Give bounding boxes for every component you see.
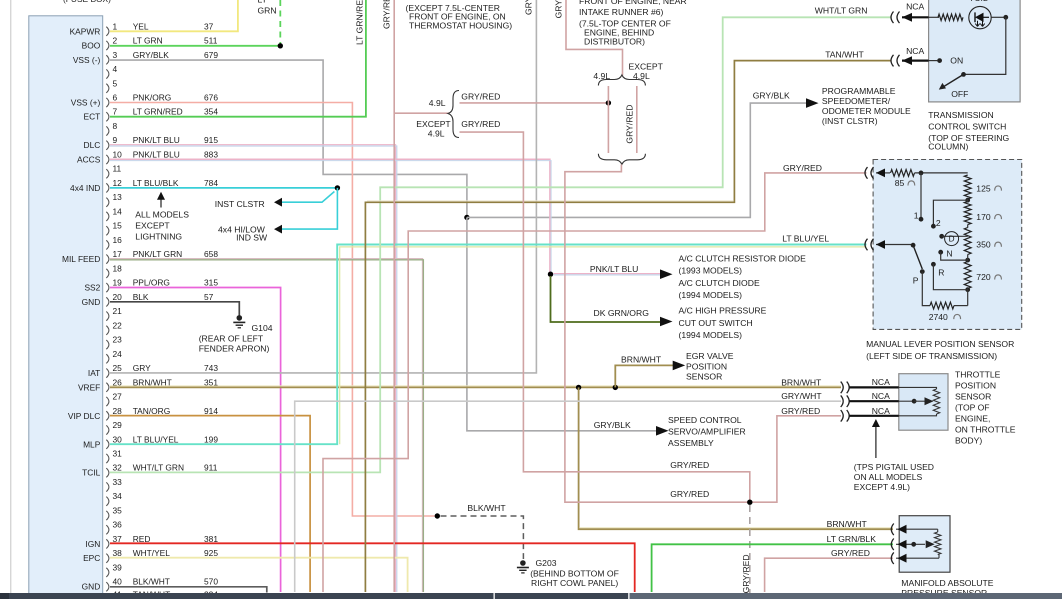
svg-text:28: 28 [113, 406, 123, 416]
svg-text:GRY/RED: GRY/RED [670, 460, 709, 470]
arrow to EGR valve position sensor [673, 361, 686, 371]
svg-text:39: 39 [113, 562, 123, 572]
svg-text:ECT: ECT [84, 112, 101, 122]
connector (( LT BLU/YEL MLP [865, 239, 874, 251]
svg-text:GRY/BLK: GRY/BLK [753, 91, 790, 101]
svg-text:2: 2 [936, 218, 941, 228]
svg-text:5: 5 [113, 78, 118, 88]
overbrace distributor split [598, 75, 645, 86]
wire dashed GRY/RED continuation off page [749, 505, 751, 593]
svg-text:13: 13 [113, 192, 123, 202]
TCS internal wire to switch [964, 17, 1006, 74]
svg-text:KAPWR: KAPWR [70, 26, 101, 36]
svg-text:WHT/YEL: WHT/YEL [133, 548, 171, 558]
wire TAN/WHT NCA from transmission control switch [367, 200, 733, 202]
wire BLK 57 pin20 GND [110, 302, 239, 316]
wire BRN/WHT branch down to MAP sensor [580, 527, 893, 529]
svg-text:TCIL: TCIL [82, 468, 100, 478]
resistor chain 125 [964, 175, 971, 199]
node 125/170 [965, 198, 970, 203]
svg-text:31: 31 [113, 449, 123, 459]
underbrace rejoin [598, 154, 645, 165]
node after 85 ohm [919, 171, 924, 176]
svg-text:21: 21 [113, 306, 123, 316]
wire branch to INST CLSTR [282, 192, 335, 203]
svg-text:4.9L: 4.9L [428, 128, 445, 138]
throttle position sensor box [899, 374, 948, 431]
resistor chain 170 [964, 202, 971, 225]
svg-text:TCIL: TCIL [969, 0, 988, 3]
connector ( BRN/WHT MAP [891, 524, 894, 536]
svg-text:NCA: NCA [872, 377, 890, 387]
svg-text:R: R [938, 267, 944, 277]
node shield junction [435, 513, 440, 518]
wire GRY/RED EXCEPT 4.9L leg [636, 86, 638, 153]
svg-text:GRY/RED: GRY/RED [741, 554, 751, 593]
svg-text:11: 11 [113, 164, 122, 174]
svg-text:40: 40 [113, 577, 123, 587]
svg-text:INST CLSTR: INST CLSTR [215, 199, 265, 209]
svg-text:G104: G104 [252, 323, 273, 333]
svg-text:8: 8 [113, 121, 118, 131]
svg-text:FENDER APRON): FENDER APRON) [199, 343, 270, 353]
svg-text:TRANSMISSION: TRANSMISSION [928, 110, 993, 120]
node chain bottom [965, 287, 970, 292]
wire TAN/ORG 914 pin28 VIP DLC [110, 416, 310, 592]
svg-text:ON THROTTLE: ON THROTTLE [955, 425, 1016, 435]
page border line [10, 0, 12, 593]
svg-text:EGR VALVE: EGR VALVE [686, 351, 734, 361]
connector )) BRN/WHT NCA [841, 382, 850, 394]
wire GRY/BLK to speed control servo [467, 217, 656, 430]
brace split 4.9L / EXCEPT 4.9L [448, 91, 459, 138]
svg-text:1: 1 [113, 21, 118, 31]
svg-text:350: 350 [976, 240, 991, 250]
transmission control switch box [929, 0, 1021, 102]
contact 2 link [933, 200, 967, 226]
wire PNK/LT BLU 883 pin10 ACCS two-tone [110, 159, 550, 273]
svg-text:NCA: NCA [872, 406, 890, 416]
svg-text:PNK/LT BLU: PNK/LT BLU [133, 150, 180, 160]
svg-text:DK GRN/ORG: DK GRN/ORG [594, 308, 650, 318]
svg-text:925: 925 [204, 548, 218, 558]
svg-text:SPEEDOMETER/: SPEEDOMETER/ [822, 96, 891, 106]
svg-text:GRY/BLK: GRY/BLK [594, 420, 631, 430]
svg-text:GRY/WHT: GRY/WHT [781, 391, 822, 401]
connector ( GRY/RED MAP [891, 552, 894, 564]
svg-text:GRY/RED: GRY/RED [670, 489, 709, 499]
svg-text:38: 38 [113, 548, 123, 558]
svg-text:27: 27 [113, 392, 123, 402]
node on LT GRN [278, 43, 283, 48]
svg-text:VSS (+): VSS (+) [71, 98, 101, 108]
svg-text:GRY/RED: GRY/RED [461, 119, 500, 129]
svg-text:35: 35 [113, 506, 123, 516]
wire PPL/ORG 315 pin19 SS2 [110, 288, 281, 593]
wire PNK/ORG 676 pin6 VSS(+) [110, 103, 435, 517]
svg-text:TAN/ORG: TAN/ORG [133, 406, 171, 416]
svg-text:ODOMETER MODULE: ODOMETER MODULE [822, 106, 911, 116]
arrow to programmable speedometer [806, 98, 819, 108]
svg-text:LT GRN/RED: LT GRN/RED [355, 0, 365, 45]
svg-text:4x4 IND: 4x4 IND [70, 183, 100, 193]
svg-text:(INST CLSTR): (INST CLSTR) [822, 116, 878, 126]
svg-text:BRN/WHT: BRN/WHT [621, 355, 662, 365]
wire GRY/WHT to TPS from off page [295, 401, 841, 592]
wire dashed LT GRN stub to top [279, 0, 281, 44]
wire PNK/LT BLU to A/C clutch diode [554, 273, 664, 275]
arrow to 4x4 HI/LOW IND SW [274, 225, 282, 234]
arrow to INST CLSTR [274, 198, 282, 207]
svg-text:15: 15 [113, 221, 123, 231]
svg-text:12: 12 [113, 178, 123, 188]
svg-text:SENSOR: SENSOR [686, 372, 722, 382]
resistor 2740 bottom [922, 272, 930, 306]
svg-text:SERVO/AMPLIFIER: SERVO/AMPLIFIER [668, 427, 746, 437]
svg-text:NCA: NCA [872, 391, 890, 401]
svg-text:19: 19 [113, 278, 123, 288]
svg-text:D: D [949, 235, 955, 244]
svg-text:YEL: YEL [133, 21, 149, 31]
resistor in TCS [938, 14, 963, 20]
svg-text:PPL/ORG: PPL/ORG [133, 278, 170, 288]
wire DK GRN/ORG to A/C high pressure cut out switch [551, 276, 664, 322]
NCA lead WHT/LT GRN [902, 16, 929, 18]
svg-text:GND: GND [82, 582, 101, 592]
connector )) GRY/RED NCA [841, 410, 850, 422]
contact P and lever [920, 269, 925, 274]
wire GRY/RED 4.9L branch [460, 102, 607, 104]
svg-text:720: 720 [976, 272, 991, 282]
svg-text:A/C CLUTCH DIODE: A/C CLUTCH DIODE [679, 278, 760, 288]
connector )) GRY/WHT NCA [841, 395, 850, 407]
svg-text:24: 24 [113, 349, 123, 359]
svg-text:SPEED CONTROL: SPEED CONTROL [668, 415, 742, 425]
svg-text:57: 57 [204, 292, 214, 302]
node joins distributor leg [606, 100, 611, 105]
svg-text:18: 18 [113, 263, 123, 273]
svg-text:1: 1 [914, 210, 919, 220]
svg-text:G203: G203 [536, 558, 557, 568]
svg-text:SENSOR: SENSOR [955, 392, 991, 402]
TPS pigtail callout arrow [875, 422, 877, 458]
svg-text:OFF: OFF [951, 89, 968, 99]
svg-text:THERMOSTAT HOUSING): THERMOSTAT HOUSING) [409, 21, 512, 31]
svg-text:(1994 MODELS): (1994 MODELS) [679, 330, 743, 340]
svg-text:BRN/WHT: BRN/WHT [827, 519, 868, 529]
svg-text:SS2: SS2 [84, 283, 100, 293]
svg-text:EXCEPT 4.9L): EXCEPT 4.9L) [854, 482, 910, 492]
svg-text:GRN: GRN [258, 6, 277, 16]
wire branch to 4x4 HI/LOW IND SW [282, 188, 338, 229]
svg-text:ALL MODELS: ALL MODELS [135, 210, 189, 220]
svg-text:(1993 MODELS): (1993 MODELS) [679, 266, 743, 276]
svg-text:EXCEPT: EXCEPT [629, 62, 664, 72]
svg-text:RIGHT COWL PANEL): RIGHT COWL PANEL) [531, 578, 618, 588]
svg-text:VSS (-): VSS (-) [73, 55, 101, 65]
node VSS junction [464, 215, 469, 220]
svg-text:LIGHTNING: LIGHTNING [135, 232, 182, 242]
resistor chain 720 [964, 262, 971, 289]
svg-text:BLK/WHT: BLK/WHT [133, 577, 170, 587]
wire GRY/RED to MLP sensor [323, 173, 867, 592]
svg-text:DISTRIBUTOR): DISTRIBUTOR) [584, 37, 645, 47]
svg-text:MANUAL LEVER POSITION SENSOR: MANUAL LEVER POSITION SENSOR [866, 339, 1014, 349]
wire GRY/RED EXCEPT 4.9L branch [460, 132, 750, 502]
svg-text:10: 10 [113, 150, 123, 160]
svg-text:915: 915 [204, 135, 218, 145]
svg-text:14: 14 [113, 206, 123, 216]
svg-text:PNK/ORG: PNK/ORG [133, 93, 172, 103]
pin numbers and wire identification text [62, 21, 218, 599]
svg-text:ON ALL MODELS: ON ALL MODELS [854, 472, 923, 482]
wire GRY 743 pin25 IAT [110, 0, 536, 373]
node 350/720 [965, 258, 970, 263]
svg-text:3: 3 [113, 50, 118, 60]
svg-text:FRONT OF ENGINE, NEAR: FRONT OF ENGINE, NEAR [579, 0, 687, 6]
svg-text:85: 85 [895, 178, 905, 188]
svg-text:GND: GND [82, 297, 101, 307]
wire RED 381 pin37 IGN [110, 543, 635, 592]
TPS potentiometer [899, 387, 937, 389]
connector ( LT GRN/BLK MAP [891, 539, 894, 551]
ground G203 symbol [520, 560, 526, 566]
wire GRY/RED sig rtn vertical from ECT thermostat [393, 0, 395, 592]
svg-text:PNK/LT GRN: PNK/LT GRN [133, 249, 182, 259]
switch lever OFF position [961, 72, 966, 77]
svg-text:743: 743 [204, 363, 218, 373]
resistor 85 ohm [891, 170, 915, 177]
wire GRY/RED combined to sig rtn bus [565, 165, 841, 503]
MAP potentiometer [937, 529, 939, 532]
wire LT BLU/YEL 199 pin30 MLP two-tone [110, 245, 867, 445]
svg-text:LT GRN: LT GRN [133, 36, 163, 46]
svg-text:676: 676 [204, 93, 218, 103]
svg-text:BODY): BODY) [955, 436, 982, 446]
TCIL lamp (LED) [969, 6, 991, 28]
node VREF to MAP [576, 385, 581, 390]
connector (( WHT/LT GRN NCA [891, 12, 900, 24]
svg-text:GRY/RED: GRY/RED [781, 406, 820, 416]
svg-text:COLUMN): COLUMN) [928, 142, 968, 152]
taskbar [0, 593, 494, 599]
svg-text:354: 354 [204, 107, 218, 117]
svg-text:A/C HIGH PRESSURE: A/C HIGH PRESSURE [679, 306, 767, 316]
svg-text:16: 16 [113, 235, 123, 245]
NCA lead TAN/WHT [902, 59, 929, 61]
svg-text:33: 33 [113, 477, 123, 487]
resistor chain 350 [964, 228, 971, 255]
svg-text:IGN: IGN [85, 539, 100, 549]
wire BRN/WHT branch to EGR valve position sensor [615, 365, 673, 387]
svg-text:GRY/RED: GRY/RED [783, 163, 822, 173]
svg-text:PROGRAMMABLE: PROGRAMMABLE [822, 86, 896, 96]
wire LT BLU/BLK 784 pin12 4x4 IND [110, 187, 337, 189]
svg-text:P: P [913, 275, 919, 285]
svg-text:THROTTLE: THROTTLE [955, 370, 1001, 380]
svg-text:GRY/RED: GRY/RED [554, 0, 564, 18]
svg-text:LT BLU/YEL: LT BLU/YEL [782, 234, 829, 244]
svg-text:2740: 2740 [929, 312, 948, 322]
svg-text:784: 784 [204, 178, 218, 188]
svg-text:INTAKE RUNNER #6): INTAKE RUNNER #6) [579, 7, 663, 17]
connector (( GRY/RED MLP [865, 167, 874, 179]
svg-text:LT BLU/BLK: LT BLU/BLK [133, 178, 179, 188]
svg-text:ACCS: ACCS [77, 155, 101, 165]
callout arrow ALL MODELS EXCEPT LIGHTNING [160, 195, 162, 208]
wire LT GRN/BLK to MAP sensor [652, 544, 893, 592]
wire WHT/YEL 925 pin38 EPC [110, 558, 408, 592]
svg-text:911: 911 [204, 463, 218, 473]
ON contact [937, 58, 942, 63]
svg-text:IND SW: IND SW [236, 233, 268, 243]
svg-text:LT: LT [258, 0, 268, 5]
svg-text:914: 914 [204, 406, 218, 416]
svg-text:4.9L: 4.9L [593, 71, 610, 81]
ground G104 symbol [237, 315, 243, 321]
svg-text:VREF: VREF [78, 382, 100, 392]
svg-text:25: 25 [113, 363, 123, 373]
svg-text:MIL FEED: MIL FEED [62, 254, 100, 264]
wire BRN/WHT 351 pin26 VREF bus [110, 385, 841, 387]
arrow to A/C clutch resistor diode [660, 269, 673, 279]
svg-text:315: 315 [204, 278, 218, 288]
wire PNK/LT BLU 915 pin9 DLC two-tone [110, 145, 396, 592]
svg-text:GRY/RED: GRY/RED [382, 0, 392, 29]
svg-text:37: 37 [204, 21, 214, 31]
svg-text:BOO: BOO [82, 41, 101, 51]
svg-text:125: 125 [976, 183, 991, 193]
arrow to A/C high pressure cut out switch [660, 317, 673, 327]
wire GRY/BLK to speedometer module [467, 103, 806, 217]
manual lever position sensor dashed box [873, 160, 1022, 330]
svg-text:23: 23 [113, 335, 123, 345]
svg-text:9: 9 [113, 135, 118, 145]
svg-text:679: 679 [204, 50, 218, 60]
svg-text:(TPS PIGTAIL USED: (TPS PIGTAIL USED [854, 462, 934, 472]
svg-text:EXCEPT: EXCEPT [135, 221, 170, 231]
svg-text:GRY/BLK: GRY/BLK [133, 50, 170, 60]
svg-text:WHT/LT GRN: WHT/LT GRN [815, 6, 868, 16]
svg-text:29: 29 [113, 420, 123, 430]
svg-text:EPC: EPC [83, 553, 100, 563]
wire YEL 37 pin1 KAPWR [110, 0, 238, 31]
wire GRY/RED into 4.9L brace [394, 112, 449, 114]
svg-text:22: 22 [113, 320, 123, 330]
svg-text:17: 17 [113, 249, 123, 259]
svg-text:BRN/WHT: BRN/WHT [781, 377, 822, 387]
wire PNK/LT GRN 658 pin17 MIL FEED two-tone [110, 259, 423, 592]
svg-text:(REAR OF LEFT: (REAR OF LEFT [199, 334, 264, 344]
svg-text:2: 2 [113, 36, 118, 46]
arrow to speed control servo [656, 426, 669, 436]
svg-text:34: 34 [113, 491, 123, 501]
svg-text:GRY: GRY [524, 0, 534, 15]
svg-text:4: 4 [113, 64, 118, 74]
svg-text:883: 883 [204, 150, 218, 160]
svg-text:(BEHIND BOTTOM OF: (BEHIND BOTTOM OF [530, 569, 619, 579]
svg-text:36: 36 [113, 520, 123, 530]
node 4x4 branch [335, 185, 340, 190]
manifold absolute pressure sensor box [899, 516, 950, 573]
svg-text:DLC: DLC [84, 140, 101, 150]
svg-text:LT BLU/YEL: LT BLU/YEL [133, 434, 179, 444]
svg-text:(LEFT SIDE OF TRANSMISSION): (LEFT SIDE OF TRANSMISSION) [866, 351, 997, 361]
svg-text:570: 570 [204, 577, 218, 587]
connector pin cavity symbols [106, 27, 109, 599]
svg-text:PNK/LT BLU: PNK/LT BLU [133, 135, 180, 145]
svg-text:A/C CLUTCH RESISTOR DIODE: A/C CLUTCH RESISTOR DIODE [679, 254, 807, 264]
svg-text:BLK/WHT: BLK/WHT [467, 503, 506, 513]
svg-text:32: 32 [113, 463, 123, 473]
wire LT GRN/RED 354 pin7 ECT [110, 0, 366, 117]
svg-text:ENGINE,: ENGINE, [955, 414, 990, 424]
wire GRY/RED to MAP sensor [765, 558, 893, 592]
svg-text:GRY/RED: GRY/RED [461, 92, 500, 102]
svg-text:658: 658 [204, 249, 218, 259]
svg-text:ASSEMBLY: ASSEMBLY [668, 438, 714, 448]
svg-text:20: 20 [113, 292, 123, 302]
node VREF to EGR [613, 385, 618, 390]
svg-text:GRY/RED: GRY/RED [831, 548, 870, 558]
svg-text:POSITION: POSITION [686, 362, 727, 372]
svg-text:30: 30 [113, 434, 123, 444]
wire dashed BLK/WHT shield drain to G203 [441, 516, 524, 559]
node A/C branch [548, 272, 553, 277]
svg-text:4.9L: 4.9L [633, 71, 650, 81]
contact N link [938, 250, 943, 255]
svg-text:NCA: NCA [906, 46, 924, 56]
svg-text:VIP DLC: VIP DLC [68, 411, 100, 421]
contact D link [939, 234, 944, 239]
wire LT GRN 511 pin2 BOO [110, 45, 280, 47]
svg-text:WHT/LT GRN: WHT/LT GRN [133, 463, 184, 473]
svg-text:NCA: NCA [906, 1, 924, 11]
svg-text:CONTROL SWITCH: CONTROL SWITCH [928, 122, 1006, 132]
svg-text:N: N [946, 248, 952, 258]
svg-text:7: 7 [113, 107, 118, 117]
svg-text:(TOP OF: (TOP OF [955, 403, 990, 413]
svg-text:LT GRN/BLK: LT GRN/BLK [827, 534, 877, 544]
svg-text:199: 199 [204, 434, 218, 444]
svg-text:511: 511 [204, 36, 218, 46]
svg-text:(1994 MODELS): (1994 MODELS) [679, 290, 743, 300]
contact 1 drop [920, 173, 922, 219]
node sig rtn junction [747, 500, 752, 505]
contact R link [931, 262, 936, 267]
svg-text:LT GRN/RED: LT GRN/RED [133, 107, 183, 117]
svg-text:6: 6 [113, 93, 118, 103]
lever arm [913, 245, 922, 269]
svg-text:PNK/LT BLU: PNK/LT BLU [590, 264, 638, 274]
svg-text:CUT OUT SWITCH: CUT OUT SWITCH [679, 318, 753, 328]
svg-text:IAT: IAT [88, 368, 100, 378]
svg-text:4.9L: 4.9L [429, 98, 446, 108]
wire GRY/BLK 679 pin3 VSS(-) [110, 60, 467, 217]
svg-text:MLP: MLP [83, 439, 101, 449]
svg-text:MANIFOLD ABSOLUTE: MANIFOLD ABSOLUTE [901, 578, 993, 588]
svg-text:170: 170 [976, 212, 991, 222]
svg-text:ON: ON [950, 56, 963, 66]
node TCS right [1003, 15, 1008, 20]
svg-text:TAN/WHT: TAN/WHT [825, 50, 864, 60]
svg-text:GRY: GRY [133, 363, 151, 373]
svg-text:POSITION: POSITION [955, 381, 996, 391]
PCM connector box [29, 16, 103, 599]
svg-text:GRY/RED: GRY/RED [625, 105, 635, 144]
wire GRY/RED from distributor source [566, 0, 623, 76]
connector (( TAN/WHT NCA [891, 55, 900, 67]
